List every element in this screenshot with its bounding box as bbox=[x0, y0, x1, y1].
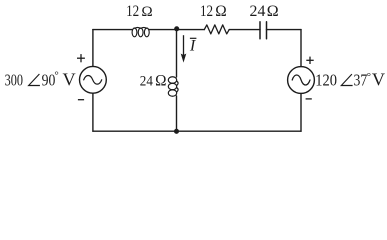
label minus V2 bbox=[306, 98, 312, 100]
wire left vertical lower bbox=[92, 93, 94, 131]
capacitor 24ohm plates bbox=[260, 22, 267, 39]
label source V1 value 300 angle 90 V bbox=[5, 70, 76, 91]
svg-text:Ω: Ω bbox=[267, 3, 279, 20]
svg-text:300: 300 bbox=[5, 72, 23, 90]
label current I with overbar bbox=[189, 35, 197, 54]
svg-text:24: 24 bbox=[250, 3, 266, 20]
wire bottom bbox=[93, 130, 301, 132]
wire right vertical lower bbox=[300, 93, 302, 131]
junction node bottom bbox=[174, 129, 179, 134]
svg-text:12: 12 bbox=[126, 3, 139, 20]
voltage source V2 circle bbox=[288, 67, 315, 94]
label plus V1 bbox=[77, 54, 85, 62]
wire resistor to capacitor bbox=[229, 29, 260, 31]
svg-text:120: 120 bbox=[315, 72, 337, 90]
resistor 12ohm zigzag bbox=[204, 25, 229, 34]
svg-text:V: V bbox=[372, 70, 385, 90]
wire capacitor to top right corner bbox=[267, 29, 302, 31]
wire top left horizontal bbox=[93, 29, 132, 31]
svg-text:24: 24 bbox=[140, 74, 153, 90]
svg-text:12: 12 bbox=[200, 3, 213, 20]
wire middle branch upper bbox=[176, 30, 178, 77]
wire left vertical upper bbox=[92, 30, 94, 67]
svg-text:°: ° bbox=[367, 71, 371, 83]
label source V2 value 120 angle 37 V bbox=[315, 70, 385, 90]
voltage source V2 sine bbox=[292, 75, 310, 85]
wire right vertical upper bbox=[300, 30, 302, 67]
svg-text:V: V bbox=[63, 70, 76, 90]
voltage source V1 circle bbox=[80, 66, 107, 93]
voltage source V1 sine bbox=[84, 75, 102, 84]
inductor 12ohm top (loops) bbox=[132, 27, 149, 36]
svg-text:Ω: Ω bbox=[155, 73, 166, 90]
svg-text:37: 37 bbox=[354, 71, 368, 90]
label plus V2 bbox=[306, 57, 313, 64]
wire middle branch lower bbox=[176, 96, 178, 131]
current arrow I bbox=[181, 35, 185, 61]
svg-text:°: ° bbox=[54, 70, 58, 82]
junction node top bbox=[174, 26, 179, 31]
inductor 24ohm middle (loops) bbox=[168, 77, 178, 97]
wire top middle bbox=[149, 29, 204, 31]
svg-text:Ω: Ω bbox=[141, 3, 152, 20]
svg-text:Ω: Ω bbox=[215, 3, 226, 20]
label minus V1 bbox=[78, 99, 84, 101]
